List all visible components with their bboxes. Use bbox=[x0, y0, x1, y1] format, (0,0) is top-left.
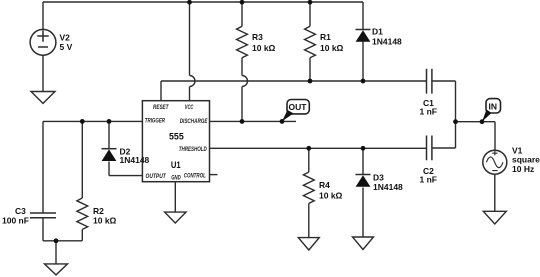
svg-text:GND: GND bbox=[171, 175, 181, 182]
svg-text:TRIGGER: TRIGGER bbox=[145, 118, 166, 125]
svg-text:DISCHARGE: DISCHARGE bbox=[180, 118, 208, 125]
svg-text:R2: R2 bbox=[93, 206, 104, 216]
svg-text:C3: C3 bbox=[15, 206, 26, 216]
svg-text:10 Hz: 10 Hz bbox=[512, 164, 534, 174]
svg-text:1N4148: 1N4148 bbox=[120, 155, 150, 165]
svg-text:10 kΩ: 10 kΩ bbox=[319, 191, 343, 201]
svg-text:D3: D3 bbox=[373, 173, 384, 183]
svg-text:1N4148: 1N4148 bbox=[372, 37, 402, 47]
svg-text:1 nF: 1 nF bbox=[420, 175, 437, 185]
svg-text:1 nF: 1 nF bbox=[420, 107, 437, 117]
svg-text:555: 555 bbox=[169, 131, 184, 141]
svg-text:OUT: OUT bbox=[289, 102, 308, 112]
svg-text:CONTROL: CONTROL bbox=[184, 172, 206, 179]
svg-text:10 kΩ: 10 kΩ bbox=[93, 216, 117, 226]
svg-text:R3: R3 bbox=[252, 32, 263, 42]
svg-text:square: square bbox=[512, 155, 540, 165]
svg-text:R1: R1 bbox=[320, 32, 331, 42]
svg-text:10 kΩ: 10 kΩ bbox=[320, 43, 344, 53]
svg-text:THRESHOLD: THRESHOLD bbox=[179, 146, 207, 153]
svg-text:R4: R4 bbox=[319, 180, 330, 190]
svg-text:100 nF: 100 nF bbox=[2, 216, 29, 226]
svg-text:V2: V2 bbox=[60, 33, 71, 43]
svg-text:OUTPUT: OUTPUT bbox=[146, 173, 167, 180]
svg-text:U1: U1 bbox=[171, 160, 181, 170]
svg-text:IN: IN bbox=[489, 101, 498, 111]
svg-text:5 V: 5 V bbox=[60, 42, 73, 52]
svg-text:1N4148: 1N4148 bbox=[373, 182, 403, 192]
svg-text:D1: D1 bbox=[372, 27, 383, 37]
svg-text:10 kΩ: 10 kΩ bbox=[252, 43, 276, 53]
svg-text:RESET: RESET bbox=[153, 104, 169, 111]
svg-text:VCC: VCC bbox=[185, 104, 194, 111]
